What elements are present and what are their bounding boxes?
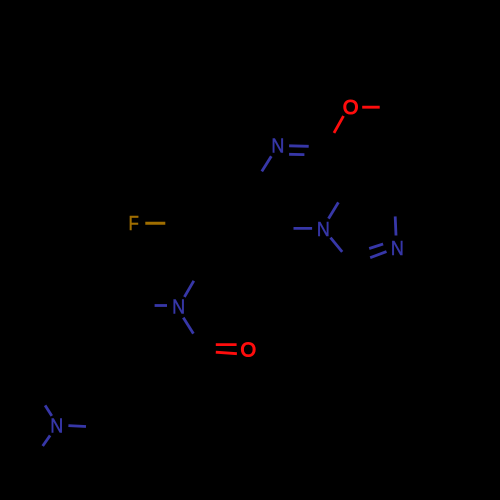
svg-text:N: N [172, 297, 185, 319]
svg-text:F: F [129, 213, 139, 235]
svg-text:O: O [241, 340, 257, 362]
svg-text:N: N [317, 219, 330, 241]
svg-text:N: N [50, 416, 63, 438]
svg-text:N: N [271, 135, 284, 157]
svg-text:N: N [391, 238, 404, 260]
svg-text:O: O [343, 97, 359, 119]
